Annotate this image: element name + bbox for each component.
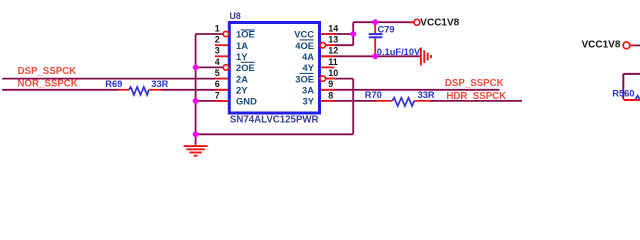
svg-text:3A: 3A xyxy=(302,85,314,96)
svg-text:7: 7 xyxy=(215,90,220,100)
svg-text:2OE: 2OE xyxy=(236,62,255,73)
svg-text:R70: R70 xyxy=(365,90,382,100)
svg-text:5: 5 xyxy=(215,68,220,78)
svg-text:R560: R560 xyxy=(612,88,634,98)
svg-text:HDR_SSPCK: HDR_SSPCK xyxy=(446,91,506,102)
svg-text:1Y: 1Y xyxy=(236,51,248,62)
svg-text:33R: 33R xyxy=(418,90,435,100)
svg-text:11: 11 xyxy=(328,57,338,67)
svg-text:R69: R69 xyxy=(105,79,122,89)
svg-text:SN74ALVC125PWR: SN74ALVC125PWR xyxy=(230,114,319,125)
svg-text:2Y: 2Y xyxy=(236,85,248,96)
svg-text:14: 14 xyxy=(328,23,338,33)
svg-text:4OE: 4OE xyxy=(295,40,314,51)
svg-text:3Y: 3Y xyxy=(303,96,315,107)
svg-text:4Y: 4Y xyxy=(303,62,315,73)
svg-text:2A: 2A xyxy=(236,73,248,84)
svg-text:0.1uF/10V: 0.1uF/10V xyxy=(377,47,421,57)
svg-text:U8: U8 xyxy=(230,11,241,21)
svg-text:C79: C79 xyxy=(378,25,395,35)
svg-text:8: 8 xyxy=(328,90,333,100)
svg-text:VCC1V8: VCC1V8 xyxy=(581,40,620,51)
svg-text:33R: 33R xyxy=(151,79,168,89)
svg-text:DSP_SSPCK: DSP_SSPCK xyxy=(18,66,77,77)
svg-text:GND: GND xyxy=(236,96,257,107)
svg-text:VCC1V8: VCC1V8 xyxy=(420,18,459,29)
svg-text:NOR_SSPCK: NOR_SSPCK xyxy=(18,78,78,89)
svg-text:DSP_SSPCK: DSP_SSPCK xyxy=(445,78,504,89)
svg-text:13: 13 xyxy=(328,35,338,45)
svg-text:3OE: 3OE xyxy=(295,73,314,84)
svg-text:3: 3 xyxy=(215,46,220,56)
svg-text:9: 9 xyxy=(328,79,333,89)
svg-text:12: 12 xyxy=(328,46,338,56)
svg-text:1: 1 xyxy=(215,23,220,33)
svg-text:10: 10 xyxy=(328,68,338,78)
svg-text:4: 4 xyxy=(215,57,220,67)
svg-text:2: 2 xyxy=(215,35,220,45)
svg-text:1A: 1A xyxy=(236,40,248,51)
svg-text:6: 6 xyxy=(215,79,220,89)
svg-text:1OE: 1OE xyxy=(236,29,255,40)
svg-text:VCC: VCC xyxy=(294,29,314,40)
svg-text:4A: 4A xyxy=(302,51,314,62)
